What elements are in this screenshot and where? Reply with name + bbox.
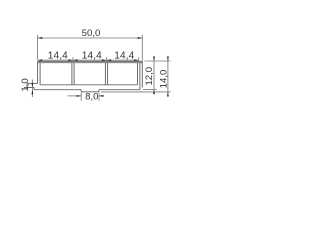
svg-text:50,0: 50,0 — [82, 28, 101, 39]
svg-text:1,0: 1,0 — [20, 78, 31, 91]
svg-text:14,0: 14,0 — [159, 70, 170, 89]
svg-text:14,4: 14,4 — [82, 50, 102, 61]
svg-text:14,4: 14,4 — [114, 50, 134, 61]
svg-text:14,4: 14,4 — [48, 50, 68, 61]
svg-text:8,0: 8,0 — [85, 91, 98, 102]
svg-text:12,0: 12,0 — [144, 67, 155, 86]
